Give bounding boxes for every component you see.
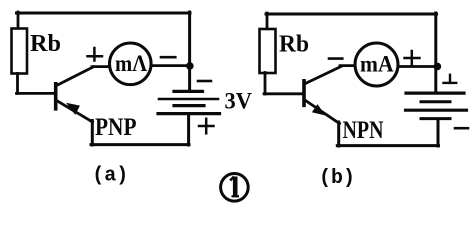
wire: Rb bottom lead (a) — [16, 74, 19, 94]
svg-text:Rb: Rb — [30, 31, 61, 57]
transistor V2 (NPN) base bar — [302, 81, 306, 106]
resistor Rb (b) body — [260, 29, 276, 73]
transistor V1 (PNP) base bar — [54, 84, 58, 109]
wire: circuit (a) top rail — [17, 12, 191, 15]
transistor V1 emitter arrow (points toward base bar: PNP) — [66, 103, 80, 115]
wire: collector to meter (a) — [92, 65, 110, 68]
wire: circuit (a) left drop from top rail to Rb — [17, 12, 20, 29]
svg-text:mA: mA — [360, 52, 394, 77]
label + at meter left (a) — [88, 48, 103, 61]
label - at meter right (a) — [161, 56, 175, 59]
battery GB2 (b) plate 4 short (negative, bottom) — [421, 117, 450, 120]
wire: circuit (b) left drop from top rail to Rb — [266, 13, 269, 30]
svg-text:NPN: NPN — [343, 117, 384, 144]
label - at meter left (b) — [329, 57, 342, 60]
figure number circled 1: circle — [221, 174, 249, 202]
wire: Rb bottom lead (b) — [264, 73, 267, 95]
label - at battery top (a) — [198, 80, 211, 83]
svg-text:3V: 3V — [225, 89, 253, 114]
ammeter P2 (mA) circle (b) — [355, 43, 398, 86]
wire: battery bottom lead (a) — [187, 114, 190, 145]
figure number circled 1: digit foot — [232, 195, 240, 197]
transistor V2 collector diagonal — [305, 67, 341, 84]
battery GB1 (a) plate 3 short — [174, 104, 204, 107]
battery GB2 (b) plate 3 long — [406, 109, 467, 112]
svg-text:Rb: Rb — [279, 32, 309, 58]
wire: battery bottom lead (b) — [437, 119, 440, 146]
ammeter P1 (mA) circle (a) — [110, 43, 152, 85]
wire: meter right to junction (b) — [399, 65, 438, 68]
battery GB2 (b) plate 1 long (positive, top) — [406, 91, 464, 94]
wire: collector to meter (b) — [340, 64, 355, 67]
battery GB1 (a) plate 2 long — [159, 98, 218, 101]
svg-text:(a): (a) — [92, 165, 128, 188]
wire: emitter elbow vertical (a) — [91, 121, 94, 146]
transistor V1 emitter diagonal — [57, 101, 93, 123]
wire: circuit (b) top rail — [266, 13, 437, 16]
wire: emitter elbow vertical (b) — [337, 122, 340, 146]
wire: meter right to junction (a) — [151, 64, 190, 67]
svg-text:(b): (b) — [319, 167, 355, 190]
label + at battery bottom (a) — [199, 119, 214, 134]
figure number circled 1: digit stem — [233, 177, 238, 197]
wire: base wire to transistor (a) — [17, 92, 55, 95]
svg-text:PNP: PNP — [95, 114, 137, 141]
svg-text:mΛ: mΛ — [115, 51, 147, 76]
transistor V2 emitter diagonal — [305, 100, 340, 124]
label + at meter right (b) — [405, 51, 420, 66]
figure number circled 1: digit top flag — [230, 177, 234, 181]
wire: circuit (b) right rail — [434, 13, 437, 92]
battery GB1 (a) plate 1 short (negative, top) — [174, 90, 203, 93]
battery GB2 (b) plate 2 short — [421, 100, 450, 103]
label - at battery bottom (b) — [455, 127, 468, 130]
wire: circuit (b) bottom wire — [337, 144, 438, 147]
node: junction dot (b) — [434, 63, 442, 71]
transistor V1 collector diagonal — [57, 67, 94, 86]
node: junction dot (a) — [186, 62, 194, 70]
transistor V2 emitter arrow (points away from base: NPN) — [312, 104, 326, 115]
wire: circuit (a) right rail — [188, 12, 191, 90]
resistor Rb (a) body — [12, 29, 28, 74]
wire: circuit (a) bottom wire — [91, 143, 189, 146]
wire: base wire to transistor (b) — [264, 92, 303, 95]
label polarity tick mark above battery (b) — [444, 75, 457, 83]
battery GB1 (a) plate 4 long (positive, bottom) — [158, 112, 220, 115]
